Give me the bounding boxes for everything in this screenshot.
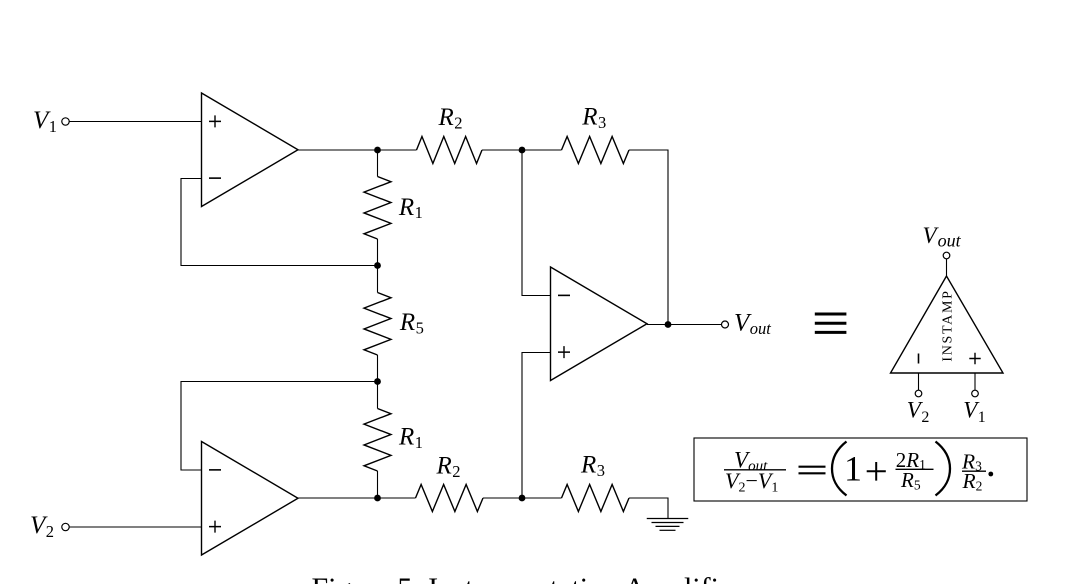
svg-text:V1: V1 <box>963 397 986 426</box>
svg-text:R5: R5 <box>399 309 424 337</box>
svg-text:V2−V1: V2−V1 <box>725 468 778 495</box>
svg-text:V2: V2 <box>30 512 54 541</box>
svg-text:R3: R3 <box>581 104 606 132</box>
svg-text:Figure 5: Instrumentation Ampl: Figure 5: Instrumentation Amplifier <box>312 572 743 584</box>
svg-text:1: 1 <box>844 449 862 489</box>
svg-text:R3: R3 <box>580 451 605 479</box>
svg-text:INSTAMP: INSTAMP <box>940 289 955 361</box>
svg-text:R2: R2 <box>436 453 461 481</box>
svg-text:R1: R1 <box>398 194 423 222</box>
svg-text:R2: R2 <box>438 104 463 132</box>
svg-text:V2: V2 <box>907 397 930 426</box>
svg-text:Vout: Vout <box>734 310 771 338</box>
svg-text:R1: R1 <box>398 424 423 452</box>
svg-text:Vout: Vout <box>923 223 962 250</box>
svg-text:V1: V1 <box>33 107 57 136</box>
